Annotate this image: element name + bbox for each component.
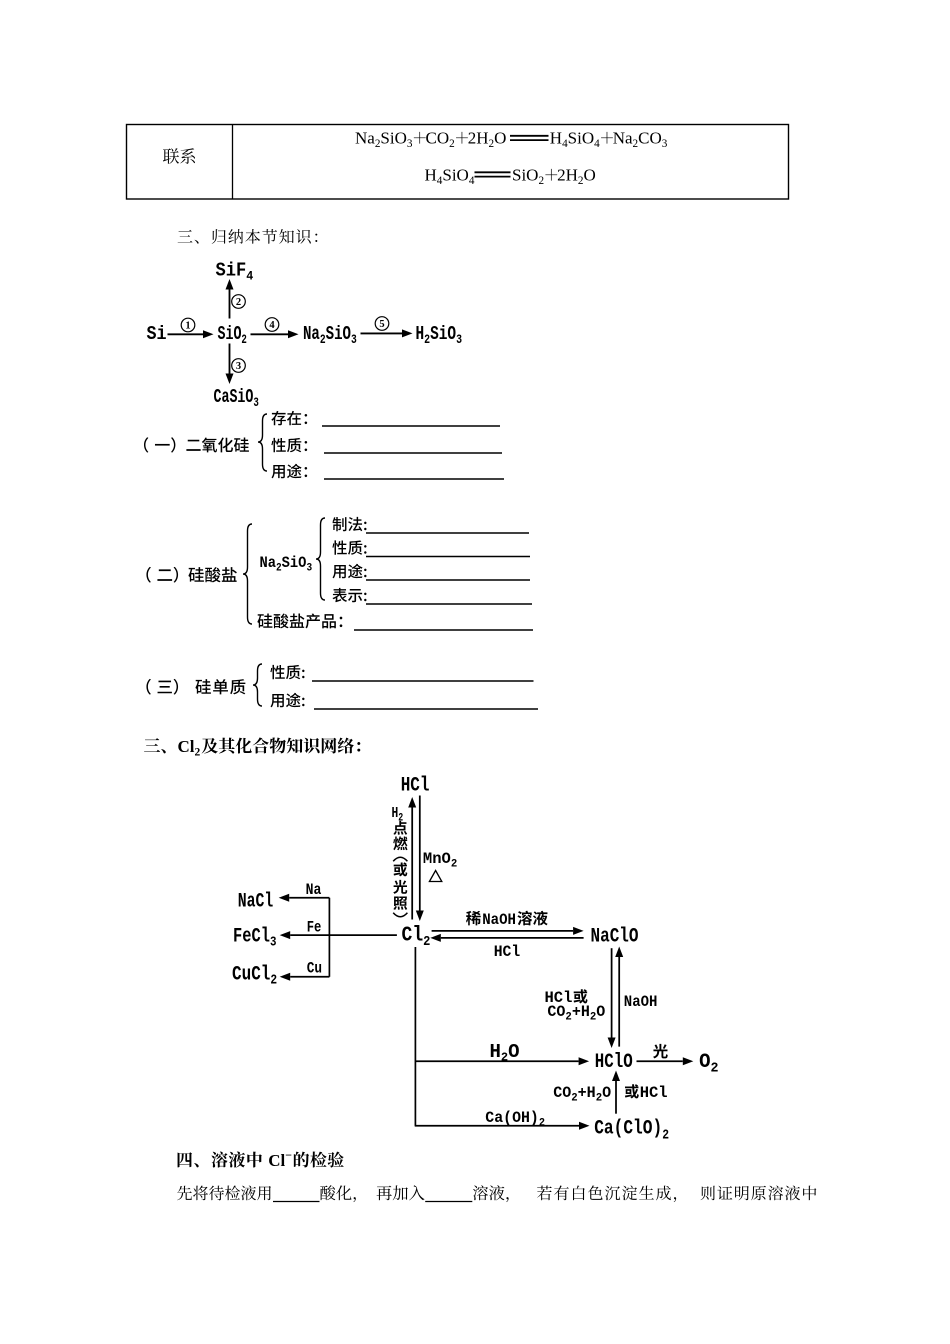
label CO2+H2O bottom [553,1084,611,1105]
svg-text:+H: +H [572,1003,590,1021]
blank 性质2 [366,556,530,558]
svg-text:3: 3 [662,138,668,150]
svg-text:O: O [602,1084,611,1102]
svg-text:SiO: SiO [218,323,242,345]
svg-text:HClO: HClO [595,1051,633,1073]
node CaSiO3 [214,386,260,411]
svg-text:2: 2 [539,1117,545,1129]
svg-text:Na: Na [613,129,633,148]
brace (三) [253,664,262,706]
svg-text:2H: 2H [468,129,489,148]
svg-text:2: 2 [662,1126,669,1142]
svg-text:H: H [392,805,399,822]
svg-text:2: 2 [241,334,247,348]
svg-text:−: − [285,1148,292,1162]
label (一)二氧化硅 [144,437,148,452]
arrow HClO to O2 label 光 [637,1060,683,1062]
svg-text:4: 4 [246,269,254,284]
outer brace (二) [243,524,252,624]
vertical paren open [393,857,407,861]
svg-text:Na: Na [306,882,322,899]
label Na2SiO3 small [260,555,313,575]
svg-text:Cu: Cu [307,960,322,978]
svg-text:2: 2 [195,746,201,758]
brace (一) [258,414,267,471]
node FeCl3 [233,926,276,950]
svg-text:4: 4 [269,320,275,331]
label 点燃(或光照) vertical [393,821,407,835]
row 存在： [271,411,307,425]
label NaOH [624,992,658,1011]
node Na2SiO3 [303,324,357,347]
arrow up Cl2 to HCl [411,808,413,920]
svg-text:NaOH: NaOH [482,910,516,929]
table label 联系 [163,148,195,164]
svg-text:1: 1 [185,320,190,331]
svg-text:SiF: SiF [216,261,247,282]
arrow down HCl to Cl2 [419,796,421,911]
svg-text:4: 4 [594,138,600,150]
blank line 用途 [324,478,504,480]
svg-text:CaSiO: CaSiO [214,386,254,408]
blank line 性质 [324,452,502,454]
svg-text:Si: Si [147,324,167,345]
svg-text:2: 2 [449,138,455,150]
node Si [147,324,167,345]
node O2 [699,1051,718,1077]
svg-text:Fe: Fe [307,919,322,937]
svg-text:FeCl: FeCl [233,926,270,948]
arrow NaClO down to HClO [611,948,613,1037]
arrow SiO2 to CaSiO3 [229,344,231,374]
double-line equals eq2 [475,171,511,173]
svg-text:SiO: SiO [282,555,307,572]
svg-text:Na: Na [355,129,375,148]
svg-text:SiO: SiO [430,324,456,345]
svg-text:Cl: Cl [402,923,424,947]
table border 联系 [127,125,789,200]
svg-text:2: 2 [538,175,544,187]
svg-text:HCl: HCl [401,775,430,797]
svg-text:4: 4 [469,175,475,187]
svg-text:2: 2 [451,858,457,870]
blank line 存在 [322,425,500,427]
svg-text:O: O [596,1003,605,1021]
blank 硅酸盐产品 [354,629,533,631]
svg-text:2: 2 [424,333,430,348]
heading 三、Cl2及其化合物知识网络： [144,738,166,753]
svg-text:2: 2 [270,971,277,988]
svg-text:3: 3 [407,138,413,150]
svg-text:3: 3 [236,361,241,372]
heading 四、溶液中Cl-的检验 [178,1151,262,1167]
paragraph 先将待检液用... [177,1185,271,1200]
arrow NaClO to Cl2 label HCl [441,937,584,939]
svg-text:2: 2 [423,933,430,949]
node SiF4 [216,261,254,284]
svg-text:H: H [416,324,425,345]
arrow Na2SiO3 to H2SiO3 circled 5 [361,332,403,334]
svg-text:NaClO: NaClO [591,926,639,948]
heading 三、归纳本节知识： [178,229,318,244]
wire Cl2 down [414,947,416,1126]
svg-text:2H: 2H [557,166,578,185]
svg-text:SiO: SiO [380,129,406,148]
row 性质2: [332,540,366,554]
svg-text:Cl: Cl [268,1151,285,1170]
node NaClO [591,926,639,948]
blank 性质3 [312,680,534,682]
row 表示: [332,588,366,602]
row 制法: [332,517,366,531]
svg-text:O: O [699,1051,711,1074]
svg-text:SiO: SiO [442,166,468,185]
blank 制法 [366,532,529,534]
svg-text:SiO: SiO [326,324,351,346]
svg-text:H: H [550,129,562,148]
node Ca(ClO)2 [594,1118,669,1143]
svg-text:Ca(ClO): Ca(ClO) [594,1118,662,1140]
arrow SiO2 to SiF4 [229,290,231,319]
circled 3 [232,359,246,373]
arrow Cl2 to FeCl3 label Fe [290,934,397,936]
svg-text:HCl: HCl [494,942,520,961]
arrow SiO2 to Na2SiO3 circled 4 [251,333,289,335]
arrow Si to SiO2 circled 1 [168,333,204,335]
svg-text:2: 2 [711,1061,719,1076]
arrow Cl2 to Ca(ClO)2 label Ca(OH)2 [415,1125,579,1127]
svg-text:MnO: MnO [423,850,451,868]
svg-text:5: 5 [379,319,384,330]
node HClO [595,1051,633,1073]
wire left branch vertical [328,898,330,977]
svg-text:Cl: Cl [178,737,195,756]
blank 用途2 [366,579,530,581]
arrow HClO up to NaOH side [618,957,620,1047]
svg-text:HCl: HCl [640,1084,668,1102]
svg-text:CO: CO [426,129,450,148]
blank 表示 [366,603,532,605]
circled 2 [232,295,246,309]
svg-text:3: 3 [253,397,259,411]
svg-text:2: 2 [236,297,241,308]
label 或HCl [625,1084,639,1098]
label MnO2 [423,850,457,871]
svg-text:3: 3 [270,934,276,950]
double-line equals eq1 [510,135,549,137]
svg-text:3: 3 [456,333,462,348]
row 用途2: [332,564,366,579]
svg-text:+H: +H [578,1084,596,1102]
row 硅酸盐产品： [257,613,342,628]
label H2 vertical [392,805,404,824]
label (二)硅酸盐 [146,567,151,583]
arrow Cl2 to NaClO label 稀NaOH溶液 [432,930,573,932]
equation Na2SiO3+CO2+2H2O=H4SiO4+Na2CO3 [355,129,413,150]
row 性质： [271,438,307,452]
svg-text:3: 3 [306,562,312,575]
svg-text:NaCl: NaCl [238,891,274,914]
vertical paren close [393,913,407,917]
inner brace (二) [316,518,325,600]
svg-text:3: 3 [351,333,357,348]
arrow Ca(ClO)2 up to HClO [615,1081,617,1114]
arrow to CuCl2 label Cu [290,976,329,978]
svg-text:2: 2 [596,1092,602,1104]
svg-text:H: H [425,166,437,185]
svg-text:Na: Na [260,555,277,572]
svg-text:CO: CO [638,129,662,148]
table divider [232,125,234,200]
triangle heat symbol [429,871,441,882]
svg-text:2: 2 [590,1011,596,1023]
svg-text:O: O [494,129,506,148]
svg-text:O: O [583,166,595,185]
svg-text:2: 2 [320,333,326,348]
node HCl top [401,775,430,797]
row 用途3: [270,693,304,708]
node SiO2 [218,323,248,348]
node CuCl2 [232,964,277,988]
svg-text:H: H [490,1041,501,1063]
svg-text:2: 2 [501,1051,508,1065]
blank 用途3 [314,708,538,710]
label (三)硅单质 [146,679,151,695]
node Cl2 [402,923,431,949]
svg-text:NaOH: NaOH [624,992,658,1011]
row 性质3: [270,665,304,679]
svg-text:CO: CO [547,1003,565,1021]
svg-text:SiO: SiO [512,166,538,185]
label HCl或 CO2+H2O [545,989,573,1007]
svg-text:CuCl: CuCl [232,964,271,986]
svg-text:O: O [508,1041,519,1063]
node NaCl [238,891,274,914]
svg-text:Ca(OH): Ca(OH) [485,1109,539,1128]
svg-text:Na: Na [303,324,320,346]
equation H4SiO4=SiO2+2H2O [425,166,475,187]
svg-text:SiO: SiO [568,129,594,148]
svg-text:CO: CO [553,1084,571,1102]
node H2SiO3 [416,324,463,347]
arrow to NaCl label Na [289,897,329,899]
arrow to HClO label H2O [415,1060,578,1062]
row 用途： [271,464,307,479]
svg-text:2: 2 [276,562,282,575]
